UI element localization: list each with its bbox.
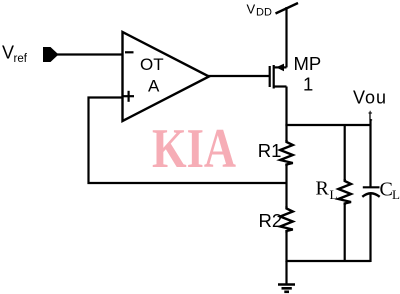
svg-text:KIA: KIA <box>152 118 236 180</box>
op-amp inverting input marker <box>125 51 134 53</box>
svg-text:R2: R2 <box>259 210 283 231</box>
svg-text:1: 1 <box>303 74 313 95</box>
svg-text:L: L <box>330 187 338 202</box>
wire CL branch bottom <box>369 194 371 263</box>
svg-text:V: V <box>247 2 256 17</box>
svg-text:V: V <box>2 43 14 63</box>
svg-text:R: R <box>316 178 330 200</box>
wire ground rail <box>287 260 371 262</box>
wire R2 to ground rail <box>285 232 287 262</box>
wire MP1 drain down through output node to R1 <box>285 87 287 142</box>
svg-text:MP: MP <box>294 53 322 74</box>
svg-text:A: A <box>148 77 160 96</box>
power rail VDD <box>276 3 299 14</box>
transistor MP1 <box>270 65 287 89</box>
wire ground stub <box>285 261 287 285</box>
wire CL branch top <box>369 119 371 188</box>
wire op-amp output to MP1 gate <box>208 75 270 77</box>
wire feedback tap to op-amp non-inverting input <box>89 98 287 184</box>
label CL <box>380 179 400 203</box>
label MP 1 <box>294 53 322 95</box>
transistor MP1 source arrow <box>276 64 284 72</box>
svg-text:Vou: Vou <box>353 88 387 108</box>
wire R1 to R2 <box>285 164 287 207</box>
svg-text:DD: DD <box>256 6 272 18</box>
svg-text:ref: ref <box>14 53 28 65</box>
svg-text:L: L <box>392 187 400 202</box>
label VDD <box>247 2 272 19</box>
resistor R2 <box>280 207 293 233</box>
capacitor CL <box>362 187 379 197</box>
input terminal Vref <box>43 47 59 62</box>
op-amp U1 body (OTA) <box>123 32 210 121</box>
svg-text:R1: R1 <box>258 140 282 161</box>
wire output node horizontal <box>285 124 370 126</box>
label Vout <box>353 88 387 125</box>
op-amp label OT A <box>140 55 164 96</box>
svg-text:OT: OT <box>140 55 164 74</box>
resistor R1 <box>280 140 293 166</box>
ground <box>278 285 295 292</box>
wire VDD to MP1 source <box>285 7 287 67</box>
wire RL branch top <box>344 124 346 180</box>
wire Vref to inverting input <box>57 53 123 55</box>
label Vref <box>2 43 28 66</box>
svg-text:C: C <box>380 179 393 201</box>
resistor RL <box>338 179 351 205</box>
label RL <box>316 178 338 203</box>
op-amp non-inverting input marker <box>123 91 134 102</box>
wire RL branch bottom <box>344 204 346 262</box>
